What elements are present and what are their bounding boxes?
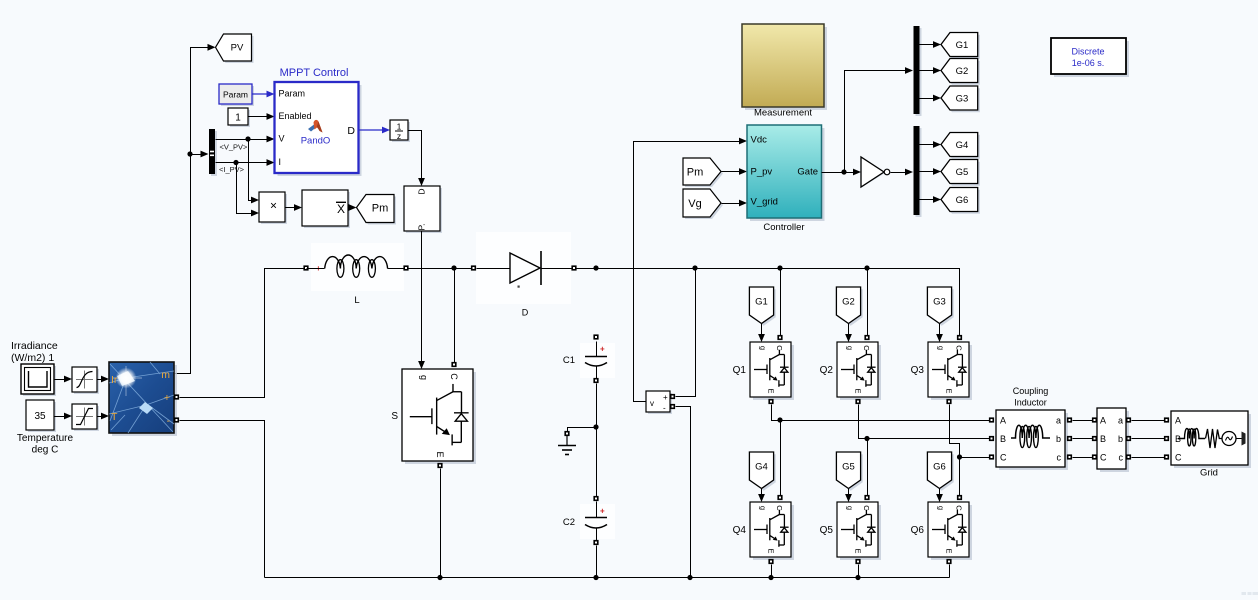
Q5 collector port (864, 495, 869, 500)
svg-text:Vdc: Vdc (751, 134, 768, 145)
label Temperature deg C (17, 433, 74, 456)
svg-text:C: C (775, 345, 784, 351)
wire branch down to S collector (454, 269, 456, 363)
wire I tap to product (237, 163, 260, 217)
svg-text:PV: PV (231, 43, 244, 54)
Q1 collector port (777, 335, 782, 340)
From tag G5 (836, 452, 862, 491)
svg-text:deg C: deg C (32, 445, 59, 456)
IGBT Q1 (750, 342, 794, 400)
NOT gate (861, 157, 890, 187)
svg-text:Ir: Ir (111, 374, 118, 386)
phase A wire (Q1 E to Q4 C and inductor A) (772, 405, 990, 496)
goto tag PV (208, 34, 254, 63)
wire demux to goto G6 (920, 196, 942, 203)
MATLAB logo inside MPPT (308, 120, 323, 133)
signal source block (irradiance) (21, 364, 56, 396)
svg-text:B: B (1000, 434, 1006, 444)
svg-text:E: E (435, 451, 445, 457)
svg-text:S: S (391, 411, 398, 422)
svg-text:<I_PV>: <I_PV> (219, 165, 245, 174)
svg-text:B: B (1100, 434, 1106, 444)
svg-text:G5: G5 (842, 462, 855, 473)
svg-text:Measurement: Measurement (754, 108, 812, 119)
svg-text:C: C (1000, 453, 1007, 463)
wire C2 to bottom bus (596, 546, 598, 578)
goto tag G2 (941, 59, 980, 85)
svg-text:C: C (955, 505, 964, 511)
wire G3 to Q3 gate (936, 324, 943, 343)
svg-text:MPPT Control: MPPT Control (280, 67, 349, 79)
svg-text:Q3: Q3 (911, 365, 925, 376)
svg-text:Vg: Vg (688, 198, 701, 210)
svg-text:E: E (854, 388, 863, 393)
svg-text:A: A (1100, 416, 1106, 426)
Coupling Inductor block (996, 410, 1068, 470)
wire into bus selector (191, 151, 209, 158)
phase C wire (Q3 E to Q6 C and inductor C) (950, 405, 990, 496)
rate limiter block (72, 367, 99, 394)
Q6 emitter port (946, 559, 951, 564)
three-phase VI measurement block (1097, 408, 1129, 472)
wire V tap to product (249, 140, 260, 204)
svg-text:E: E (767, 548, 776, 553)
label Coupling Inductor (1013, 386, 1049, 408)
svg-text:Q4: Q4 (733, 525, 747, 536)
wire demux to goto G4 (920, 141, 942, 148)
constant block 1 (228, 108, 250, 127)
svg-text:1e-06 s.: 1e-06 s. (1072, 58, 1105, 68)
unit delay block (390, 120, 410, 142)
MPPT Control block U1 (275, 67, 362, 176)
S emitter port (437, 463, 442, 468)
voltage measurement block v (646, 391, 672, 414)
capacitor C1 (580, 334, 615, 383)
goto tag G6 (941, 188, 980, 214)
IGBT Q3 (928, 342, 972, 400)
svg-text:G2: G2 (956, 66, 969, 77)
svg-text:Grid: Grid (1200, 468, 1218, 479)
From tag G4 (749, 452, 775, 491)
svg-text:-: - (663, 404, 666, 413)
svg-text:E: E (945, 548, 954, 553)
lower demux (914, 126, 922, 217)
Controller subsystem (747, 125, 825, 233)
svg-text:35: 35 (34, 411, 46, 422)
wire I_PV to MPPT I input (216, 159, 275, 166)
PV array block (109, 362, 177, 436)
svg-text:C: C (1100, 453, 1107, 463)
wire DC+ to Q2 collector (867, 269, 869, 336)
phase B wire (Q2 E to Q5 C and inductor B) (859, 405, 990, 496)
inductor L (303, 243, 408, 291)
svg-text:A: A (1000, 416, 1006, 426)
Q4 emitter port (768, 559, 773, 564)
svg-text:V: V (279, 134, 285, 144)
svg-text:a: a (1056, 416, 1061, 426)
svg-text:c: c (1119, 453, 1124, 463)
Q3 collector port (957, 335, 962, 340)
Measurement subsystem (742, 24, 827, 119)
wires measurement to grid (1132, 421, 1166, 458)
svg-text:-: - (167, 415, 171, 427)
svg-text:C: C (775, 505, 784, 511)
svg-text:Coupling: Coupling (1013, 386, 1049, 396)
corner UI marks (1242, 592, 1258, 595)
powergui Discrete block (1051, 38, 1129, 77)
goto tag Pm (357, 195, 397, 225)
Q2 collector port (864, 335, 869, 340)
svg-text:b: b (1056, 434, 1061, 444)
wire S emitter to bottom bus (440, 469, 442, 578)
svg-text:+: + (600, 507, 605, 516)
wire Q5 emitter to bottom bus (858, 565, 860, 578)
wire irradiance to rate limiter (55, 376, 73, 383)
wire L to diode with branch to S collector (409, 265, 472, 270)
From tag G6 (927, 452, 953, 491)
wire DC+ to Q1 collector (780, 269, 782, 336)
svg-text:Q5: Q5 (820, 525, 834, 536)
svg-text:Param: Param (279, 89, 306, 99)
svg-text:G4: G4 (956, 140, 969, 151)
wire to ground (564, 428, 596, 437)
Q5 emitter port (855, 559, 860, 564)
wire G1 to Q1 gate (758, 324, 765, 343)
IGBT S block (402, 369, 476, 464)
DC+ top bus from diode to inverter (577, 265, 960, 335)
wire NOT to lower demux (891, 169, 914, 176)
goto tag G5 (941, 160, 980, 186)
svg-text:C: C (862, 345, 871, 351)
svg-text:C: C (862, 505, 871, 511)
goto tag G4 (941, 133, 980, 159)
wire G5 to Q5 gate (845, 489, 852, 503)
Q6 collector port (957, 495, 962, 500)
svg-text:g: g (846, 506, 855, 510)
PV - output port (174, 417, 179, 422)
svg-text:E: E (767, 388, 776, 393)
From tag G3 (927, 287, 953, 326)
svg-text:C2: C2 (563, 517, 575, 528)
svg-text:Pm: Pm (372, 203, 389, 215)
wire v- to bottom bus (676, 407, 691, 578)
svg-text:X: X (337, 202, 345, 216)
ground symbol (558, 436, 576, 455)
svg-text:G1: G1 (956, 40, 969, 51)
svg-text:v: v (650, 399, 654, 408)
wire rate limiter to PV Ir (98, 376, 110, 383)
wire product to mean (286, 204, 303, 211)
Q2 emitter port (855, 399, 860, 404)
wire G4 to Q4 gate (758, 489, 765, 503)
diode D (471, 232, 577, 304)
wire C1 bottom to C2 top with ground tap (593, 384, 598, 497)
wire PV- to bottom bus (180, 421, 265, 578)
PV + output port (174, 394, 179, 399)
coupling inductor ports (989, 417, 1072, 459)
svg-text:G2: G2 (842, 297, 855, 308)
svg-text:+: + (663, 393, 668, 402)
IGBT Q6 (928, 502, 972, 560)
bottom bus wire (265, 575, 950, 580)
From tag G2 (836, 287, 862, 326)
svg-text:m: m (161, 369, 170, 381)
wire Pm to controller (722, 168, 748, 175)
constant block Param (219, 84, 254, 106)
svg-text:G5: G5 (956, 167, 969, 178)
wire saturation to PV T (98, 413, 110, 420)
capacitor C2 (580, 496, 615, 545)
v minus port (670, 404, 675, 409)
svg-text:b: b (1118, 434, 1123, 444)
wire 1 to MPPT Enabled (249, 113, 275, 120)
wire PV+ to inductor L (180, 269, 304, 398)
svg-text:G1: G1 (755, 297, 768, 308)
svg-text:Enabled: Enabled (279, 111, 312, 121)
product block (259, 192, 287, 224)
wire Q6 emitter to bottom bus (949, 565, 951, 578)
label Irradiance (W/m2) 1 (11, 340, 58, 364)
wire Param to MPPT (blue) (252, 91, 275, 98)
wire 35 to saturation (55, 413, 73, 420)
svg-text:G3: G3 (933, 297, 946, 308)
svg-text:Pm: Pm (687, 167, 704, 179)
wire v output to controller Vdc (634, 138, 748, 402)
wire mean to Pm tag (349, 204, 357, 211)
svg-text:g: g (759, 506, 768, 510)
svg-text:1: 1 (235, 113, 241, 124)
wire demux to goto G2 (920, 67, 942, 74)
wire V_PV to MPPT V input (216, 136, 275, 143)
svg-text:g: g (937, 346, 946, 350)
svg-text:Controller: Controller (763, 222, 804, 233)
svg-text:×: × (270, 199, 277, 213)
svg-text:g: g (419, 375, 429, 380)
wire m to PV tag (vertical riser) (175, 48, 208, 374)
svg-text:Irradiance: Irradiance (11, 340, 58, 352)
v plus port (670, 394, 675, 399)
wires inductor to measurement block (1073, 421, 1093, 458)
svg-text:C: C (1175, 453, 1182, 463)
goto tag G1 (941, 33, 980, 59)
svg-text:Q2: Q2 (820, 365, 834, 376)
saturation block (72, 404, 99, 431)
From tag Pm (683, 158, 723, 187)
svg-text:Discrete: Discrete (1071, 47, 1104, 57)
wire demux to goto G3 (920, 95, 942, 102)
svg-text:+: + (600, 345, 605, 354)
From tag G1 (749, 287, 775, 326)
wire Vg to controller (722, 200, 748, 207)
svg-text:g: g (937, 506, 946, 510)
wire G6 to Q6 gate (936, 489, 943, 503)
svg-text:Inductor: Inductor (1014, 398, 1047, 408)
wire MPPT D to unit delay (blue) (359, 127, 391, 134)
svg-text:G4: G4 (755, 462, 768, 473)
svg-text:T: T (111, 411, 118, 423)
IGBT Q2 (837, 342, 881, 400)
S collector port (451, 362, 456, 367)
From tag Vg (683, 189, 723, 219)
PWM generator block (rotated) (404, 186, 442, 233)
svg-text:A: A (1175, 416, 1181, 426)
svg-text:G3: G3 (956, 94, 969, 105)
svg-text:P_pv: P_pv (751, 166, 773, 177)
svg-text:Gate: Gate (797, 166, 818, 177)
svg-text:E: E (854, 548, 863, 553)
wire demux to goto G1 (920, 41, 942, 48)
Q3 emitter port (946, 399, 951, 404)
svg-text:Q6: Q6 (911, 525, 925, 536)
wire v+ to DC+ bus (676, 269, 696, 397)
bus selector (209, 129, 217, 176)
wire unit delay to PWM generator (409, 131, 425, 187)
svg-text:V_grid: V_grid (751, 197, 778, 208)
svg-text:Temperature: Temperature (17, 433, 74, 444)
svg-text:L: L (354, 295, 359, 306)
svg-text:D: D (522, 308, 529, 318)
svg-text:g: g (846, 346, 855, 350)
svg-text:D: D (417, 188, 427, 194)
upper demux (914, 26, 922, 116)
constant block 35 (26, 400, 56, 432)
svg-text:Q1: Q1 (733, 365, 747, 376)
Q4 collector port (777, 495, 782, 500)
svg-text:P.: P. (417, 224, 427, 231)
IGBT Q4 (750, 502, 794, 560)
wire Gate output with branch (822, 169, 862, 176)
goto tag G3 (941, 86, 980, 112)
svg-text:C: C (955, 345, 964, 351)
svg-text:c: c (1057, 453, 1062, 463)
IGBT Q5 (837, 502, 881, 560)
svg-text:G6: G6 (956, 195, 969, 206)
svg-text:(W/m2) 1: (W/m2) 1 (11, 352, 54, 364)
wire demux to goto G5 (920, 168, 942, 175)
wire PWM to IGBT S gate (418, 232, 425, 370)
svg-text:D: D (347, 125, 355, 137)
wire Q4 emitter to bottom bus (771, 565, 773, 578)
svg-text:1: 1 (397, 122, 402, 132)
svg-text:I: I (279, 157, 282, 167)
wire G2 to Q2 gate (845, 324, 852, 343)
svg-text:C1: C1 (563, 355, 575, 366)
Grid block (1171, 411, 1251, 468)
svg-text:G6: G6 (933, 462, 946, 473)
svg-text:PandO: PandO (301, 136, 331, 147)
svg-text:a: a (1118, 416, 1123, 426)
mean block (302, 190, 350, 228)
svg-text:g: g (759, 346, 768, 350)
svg-text:Param: Param (223, 90, 248, 100)
svg-text:<V_PV>: <V_PV> (220, 143, 249, 152)
svg-text:+: + (164, 392, 170, 404)
svg-text:z: z (397, 131, 401, 141)
svg-text:E: E (945, 388, 954, 393)
Q1 emitter port (768, 399, 773, 404)
wire Gate branch up to upper demux (845, 67, 914, 172)
measurement block ports (1092, 417, 1131, 459)
svg-text:C: C (449, 373, 459, 380)
grid ports (1164, 417, 1169, 459)
